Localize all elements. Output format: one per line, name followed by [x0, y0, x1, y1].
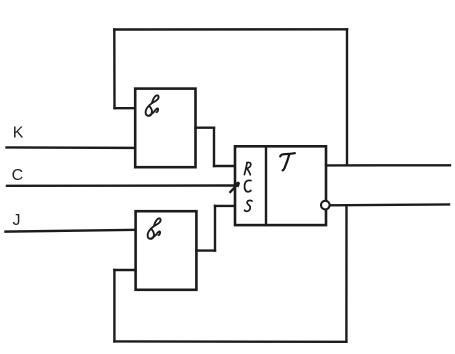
svg-text:K: K: [13, 124, 24, 141]
label & of AND gate 1: [146, 95, 159, 116]
label & of AND gate 2: [148, 218, 161, 239]
wire: feedback into upper input of AND gate 1: [115, 107, 136, 109]
wire: into S input of flip-flop: [215, 205, 235, 207]
AND gate 1 (top) box: [135, 89, 195, 168]
T flip-flop U1 box: [235, 146, 326, 225]
svg-text:J: J: [13, 212, 21, 229]
wire: AND gate 2 output, vertical jog up: [214, 206, 216, 251]
wire: inverted output Qbar to right edge: [330, 203, 449, 206]
wire: bottom feedback loop, left vertical up: [113, 270, 115, 341]
wire: bottom feedback loop, right vertical down from Qbar line: [345, 205, 348, 341]
wire: top feedback loop, right vertical down to Q line: [346, 29, 348, 164]
inversion bubble on Qbar output: [321, 201, 330, 210]
wire: top feedback loop, top horizontal: [114, 28, 347, 31]
wire: AND gate 2 output, horizontal: [196, 249, 215, 251]
T flip-flop control/main divider: [265, 146, 267, 225]
wire: into R input of flip-flop: [214, 165, 235, 167]
AND gate 2 (bottom) box: [136, 211, 197, 290]
label T (flip-flop type): [280, 153, 295, 170]
label R (flip-flop reset input): [244, 162, 250, 174]
wire: AND gate 1 output, horizontal: [196, 126, 215, 128]
label C (flip-flop clock input): [245, 180, 251, 191]
wire: Q output (top, to right edge): [326, 164, 450, 166]
label S (flip-flop set input): [245, 200, 253, 211]
wire: input C: [7, 184, 235, 187]
wire: input K: [7, 146, 136, 149]
wire: input J: [6, 230, 136, 232]
wire: bottom feedback loop, bottom horizontal: [114, 340, 346, 343]
wire: AND gate 1 output, vertical jog down: [213, 128, 215, 166]
wire: feedback into lower input of AND gate 2: [114, 269, 135, 271]
svg-text:C: C: [12, 167, 24, 184]
dynamic input arrow on C: [230, 183, 240, 193]
wire: top feedback loop, left vertical: [113, 30, 116, 109]
